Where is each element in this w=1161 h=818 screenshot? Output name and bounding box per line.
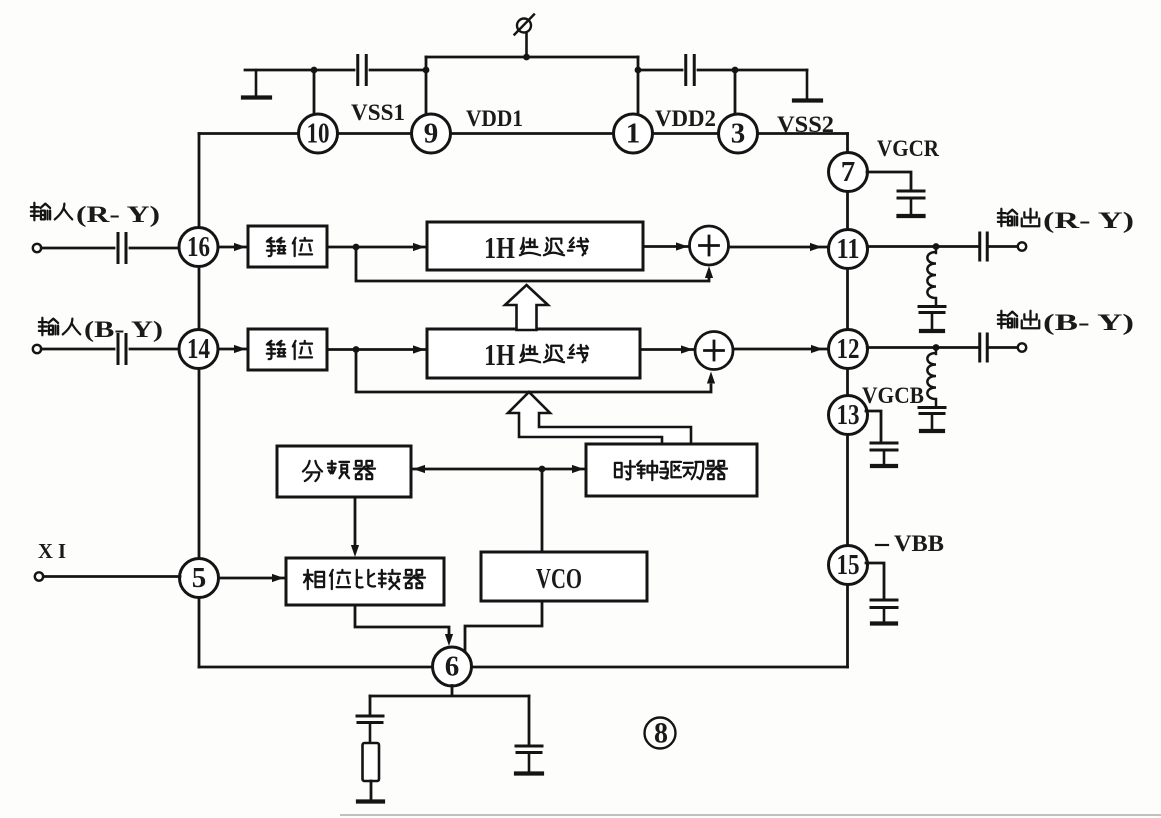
- wire pin16 to clamp: [218, 243, 248, 251]
- label XI: [38, 539, 66, 563]
- svg-text:7: 7: [841, 156, 856, 188]
- capacitor C8 (output B-Y): [980, 334, 988, 361]
- svg-text:VCO: VCO: [536, 563, 582, 595]
- capacitor C4 (input R-Y): [118, 234, 126, 263]
- pin 9: [412, 114, 451, 153]
- inductor L2: [927, 348, 936, 407]
- svg-text:X I: X I: [38, 539, 66, 563]
- pin 10: [299, 114, 338, 153]
- wire right bus: [846, 134, 849, 668]
- node above pin 3: [732, 67, 739, 74]
- wire left bus: [198, 134, 201, 668]
- wire R1 to ground: [370, 781, 373, 800]
- node above pin 10: [311, 67, 318, 74]
- wire pin6 bottom tee: [370, 686, 529, 697]
- wire XI to pin5: [43, 575, 180, 578]
- node above pin 1: [635, 67, 642, 74]
- scan edge artifact: [340, 814, 1161, 816]
- phase comparator block: [286, 558, 444, 605]
- label VSS2: [777, 112, 834, 137]
- ground (right): [794, 70, 821, 101]
- label input R-Y: [31, 202, 160, 227]
- pin 6: [433, 647, 472, 686]
- node output R-Y: [933, 243, 940, 250]
- svg-text:14: 14: [187, 333, 210, 365]
- label VSS1: [351, 100, 405, 125]
- node clock line: [539, 466, 546, 473]
- ground (left): [243, 70, 270, 98]
- ground (C11): [516, 771, 542, 775]
- label VBB: [876, 531, 944, 556]
- capacitor C5 (output R-Y): [980, 233, 988, 260]
- capacitor C13 (VBB): [871, 600, 897, 624]
- ground (R1): [358, 799, 383, 803]
- wire right rail drop: [637, 57, 640, 70]
- label VGCB: [862, 383, 924, 408]
- terminal input R-Y: [33, 244, 41, 252]
- capacitor C6 (R-Y load): [919, 307, 945, 332]
- node after clamp1: [353, 244, 360, 251]
- capacitor C10: [357, 716, 383, 743]
- clamp block 2: [248, 329, 327, 370]
- wire delay1 to adder1: [643, 242, 690, 250]
- wire clamp1 to delay1: [327, 243, 427, 251]
- wire bottom bus: [199, 666, 848, 669]
- svg-text:1H: 1H: [484, 230, 515, 265]
- wire left rail drop: [425, 57, 428, 70]
- pin 12: [829, 330, 868, 369]
- capacitor C7 (input B-Y): [118, 335, 126, 364]
- terminal input B-Y: [33, 345, 41, 353]
- wire delay2 to adder2: [640, 345, 695, 353]
- label VGCR: [877, 136, 939, 161]
- svg-text:10: 10: [307, 118, 330, 150]
- wire left branch: [369, 696, 372, 715]
- terminal output R-Y: [1018, 242, 1026, 250]
- wire pin3 drop: [734, 70, 737, 115]
- wire C8 to terminal: [988, 346, 1018, 349]
- figure number 8: [645, 717, 676, 750]
- capacitor C9 (B-Y load): [919, 408, 945, 432]
- wire VSS1 rail: [245, 69, 426, 72]
- divider block: [277, 446, 411, 497]
- wire divider-clockdriver: [411, 465, 586, 473]
- wire pin1 drop: [637, 70, 640, 115]
- pin 16: [179, 228, 218, 267]
- wire input R-Y: [41, 247, 114, 250]
- svg-text:VSS1: VSS1: [351, 100, 405, 125]
- svg-text:3: 3: [731, 118, 746, 150]
- wire pin10 drop: [313, 70, 316, 115]
- svg-text:VDD2: VDD2: [655, 106, 716, 131]
- wire divider to comparator: [351, 497, 359, 557]
- wire pin14 to clamp2: [218, 345, 248, 353]
- clock feed arrow 1: [505, 285, 548, 330]
- power rail phi symbol: [515, 15, 535, 58]
- wire pin15 to C13: [866, 563, 884, 599]
- wire adder1 to pin11: [729, 243, 830, 251]
- adder U2: [695, 332, 733, 370]
- clock feed arrow 2 (bent): [508, 392, 691, 444]
- capacitor C2 (VSS2 decoupling): [686, 56, 695, 85]
- wire adder2 to pin12: [733, 345, 829, 353]
- capacitor C11: [516, 746, 542, 772]
- svg-text:1H: 1H: [484, 337, 515, 372]
- clamp block 1: [248, 226, 327, 267]
- svg-text:12: 12: [837, 333, 860, 365]
- wire clock to VCO: [541, 469, 544, 552]
- wire clamp2 to delay2: [327, 345, 427, 353]
- wire pin7 to C3: [867, 172, 911, 191]
- wire VCO to pin6: [465, 601, 542, 652]
- wire pin5 to comparator: [219, 574, 287, 582]
- label VDD1: [466, 106, 523, 131]
- node output B-Y: [933, 344, 940, 351]
- label VDD2: [655, 106, 716, 131]
- svg-text:13: 13: [837, 399, 860, 431]
- pin 11: [829, 230, 868, 269]
- wire bypass 2: [356, 350, 715, 393]
- pin 5: [180, 559, 219, 598]
- wire pin9 drop: [425, 70, 428, 115]
- svg-text:1: 1: [626, 118, 641, 150]
- wire right branch: [528, 696, 531, 745]
- pin 7: [829, 153, 868, 192]
- svg-text:16: 16: [187, 231, 210, 263]
- wire pin11 to output: [867, 245, 978, 248]
- pin 13: [829, 396, 868, 435]
- svg-text:(B- Y): (B- Y): [1043, 310, 1134, 335]
- wire top rail VDD: [426, 56, 638, 59]
- wire input B-Y: [41, 348, 114, 351]
- svg-text:11: 11: [837, 233, 860, 265]
- pin 1: [614, 114, 653, 153]
- capacitor C12 (VGCB): [871, 443, 897, 466]
- svg-text:VBB: VBB: [894, 531, 944, 556]
- wire C7 to pin14: [130, 348, 179, 351]
- clock driver block: [586, 444, 757, 496]
- wire VSS2 rail: [638, 69, 807, 72]
- capacitor C1 (VSS1 decoupling): [358, 56, 367, 85]
- pin 3: [719, 114, 758, 153]
- label output R-Y: [998, 208, 1134, 233]
- delay line block 2: [427, 329, 640, 378]
- wire bypass 1: [356, 247, 713, 281]
- svg-text:(B- Y): (B- Y): [84, 317, 163, 342]
- svg-text:VGCB: VGCB: [862, 383, 924, 408]
- pin 14: [179, 330, 218, 369]
- label input B-Y: [39, 317, 163, 342]
- wire comparator to pin6: [355, 605, 453, 646]
- wire C5 to terminal: [988, 245, 1018, 248]
- adder U1: [690, 226, 729, 265]
- node above pin 9: [423, 67, 430, 74]
- label output B-Y: [998, 310, 1134, 335]
- VCO block: [481, 552, 647, 601]
- svg-text:5: 5: [192, 562, 207, 594]
- svg-text:(R- Y): (R- Y): [76, 202, 160, 227]
- svg-text:8: 8: [654, 717, 668, 750]
- resistor R1: [363, 743, 380, 781]
- wire top bus: [199, 132, 848, 135]
- inductor L1: [927, 247, 936, 306]
- node after clamp2: [353, 346, 360, 353]
- wire pin13 to C12: [866, 411, 881, 442]
- terminal XI: [35, 572, 43, 580]
- delay line block 1: [427, 222, 643, 270]
- node phi tap: [523, 54, 530, 61]
- svg-text:6: 6: [445, 651, 460, 683]
- wire pin12 to output: [867, 346, 978, 349]
- svg-text:VSS2: VSS2: [777, 112, 834, 137]
- terminal output B-Y: [1018, 343, 1026, 351]
- svg-text:(R- Y): (R- Y): [1043, 208, 1134, 233]
- wire C4 to pin16: [130, 247, 179, 250]
- capacitor C3 (VGCR): [898, 191, 924, 216]
- svg-text:15: 15: [837, 549, 860, 581]
- svg-text:9: 9: [424, 118, 439, 150]
- pin 15: [829, 546, 868, 585]
- svg-text:VDD1: VDD1: [466, 106, 523, 131]
- svg-text:VGCR: VGCR: [877, 136, 939, 161]
